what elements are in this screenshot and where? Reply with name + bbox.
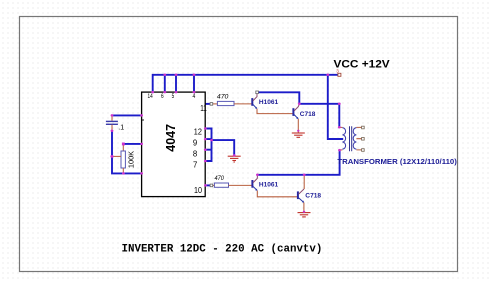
svg-text:7: 7 [193, 160, 197, 169]
transistor Q3 H1061 lower [252, 175, 257, 190]
IC U1 4047 body [142, 92, 206, 197]
svg-text:TRANSFORMER (12X12/110/110): TRANSFORMER (12X12/110/110) [337, 157, 457, 166]
wire capacitor bottom down and right to IC pin 3 [112, 131, 142, 174]
junction at lower C718 ground [303, 211, 305, 213]
junction at upper C718 collector [298, 103, 301, 106]
wire Q3 emitter to Q4 base [257, 191, 297, 197]
svg-text:8: 8 [193, 149, 197, 158]
ground at lower C718 emitter [298, 213, 311, 217]
resistor R3 470 lower [213, 183, 252, 187]
wire bracket to ground [212, 140, 235, 155]
wire upper H1061 collector run to upper C718 collector [258, 92, 299, 104]
junction at lower H1061 collector [256, 174, 259, 177]
junction at 100K branch [110, 155, 113, 158]
svg-text:.1: .1 [118, 124, 124, 131]
wire upper C718 collector to transformer primary top [299, 104, 339, 127]
capacitor C1 .1 [106, 116, 118, 131]
svg-text:C718: C718 [305, 193, 321, 200]
junction at capacitor bottom [111, 130, 114, 133]
junction at IC pin 10 [204, 184, 207, 187]
junction at bus VCC drop [326, 74, 329, 77]
svg-text:100K: 100K [126, 151, 135, 168]
resistor R2 470 upper [213, 101, 252, 105]
transformer TR 12X12/110/110 [340, 126, 362, 151]
pin terminal square secondary middle [362, 138, 365, 141]
svg-text:H1061: H1061 [259, 181, 278, 188]
wire VCC drop to transformer center tap [328, 75, 343, 139]
wire Q2 emitter to ground [297, 119, 299, 133]
pin terminal square secondary bottom [362, 149, 365, 152]
junction at IC pin 4 [193, 91, 196, 94]
wire capacitor top to IC pin 1 [112, 114, 142, 116]
transistor Q4 C718 lower [298, 189, 304, 203]
svg-text:C718: C718 [300, 111, 316, 118]
svg-text:H1061: H1061 [259, 99, 278, 106]
svg-text:470: 470 [217, 93, 229, 100]
svg-text:12: 12 [194, 128, 202, 137]
junction at transformer primary top [338, 126, 341, 129]
svg-text:470: 470 [215, 175, 225, 182]
wire pin 10 stub [205, 184, 210, 186]
wire Q4 emitter to ground [303, 203, 305, 212]
svg-text:11: 11 [200, 104, 207, 113]
junction at IC pin 1 [140, 114, 143, 117]
junction at IC pin 3 [140, 172, 143, 175]
junction at transformer primary bottom [338, 149, 341, 152]
junction at IC pin 14 [151, 91, 154, 94]
junction at IC pin 5 [175, 91, 178, 94]
svg-text:6: 6 [161, 93, 164, 100]
svg-text:9: 9 [193, 139, 197, 148]
resistor R1 100K [121, 144, 125, 173]
transistor Q1 H1061 upper [252, 94, 257, 109]
wire Q1 emitter to Q2 base [257, 109, 293, 114]
wire resistor 100K top to IC pin 2 [123, 143, 141, 145]
wire pin 6 drop [164, 75, 166, 92]
wire bracket joining pins 12-9-8-7 [205, 129, 211, 162]
svg-text:INVERTER 12DC - 220 AC (canvtv: INVERTER 12DC - 220 AC (canvtv) [122, 243, 323, 255]
wire lower collector run to transformer primary bottom [257, 150, 339, 175]
junction square at 100K top [122, 143, 125, 146]
ground at upper C718 emitter [292, 133, 305, 137]
junction at upper C718 ground [297, 130, 299, 132]
junction at lower C718 collector [303, 174, 306, 177]
transistor Q2 C718 upper [293, 104, 299, 119]
wire pin 4 drop [193, 75, 195, 92]
svg-text:10: 10 [194, 186, 203, 195]
svg-text:4047: 4047 [164, 124, 178, 152]
wire pin 11 stub [205, 103, 210, 105]
junction at IC pin 12 [204, 127, 207, 130]
wire branch to 100K body [112, 155, 121, 157]
wire Q4 collector up to lower run [303, 175, 305, 189]
junction at bus pin 6 [163, 74, 166, 77]
IC pin1 tick [142, 119, 144, 121]
svg-text:14: 14 [148, 93, 154, 100]
junction at bracket ground branch [210, 139, 213, 142]
junction at IC pin 7 [204, 160, 207, 163]
pin terminal square at Q1 collector [256, 91, 259, 94]
pin terminal square at pin 10 [210, 184, 213, 187]
junction at 100K bottom [122, 172, 125, 175]
junction at corner above transformer [338, 103, 341, 106]
wire VCC top bus with pin 14 drop [153, 75, 339, 92]
junction at bus pin 4 [193, 74, 196, 77]
wire pin 5 drop [175, 75, 177, 92]
junction at bus pin 5 [175, 74, 178, 77]
pin terminal square at pin 11 [210, 103, 213, 106]
junction at IC pin 6 [163, 91, 166, 94]
junction at capacitor top [111, 114, 114, 117]
svg-text:VCC +12V: VCC +12V [334, 58, 391, 70]
junction at IC pin 8 [204, 148, 207, 151]
ground at IC pins 12-9-8 bracket [228, 156, 241, 162]
pin terminal square secondary top [362, 126, 365, 129]
junction at IC pin 2 [140, 143, 143, 146]
power port square VCC [338, 73, 341, 76]
svg-text:4: 4 [193, 93, 196, 100]
junction at bracket ground [233, 154, 236, 157]
junction at IC pin 9 [204, 138, 207, 141]
